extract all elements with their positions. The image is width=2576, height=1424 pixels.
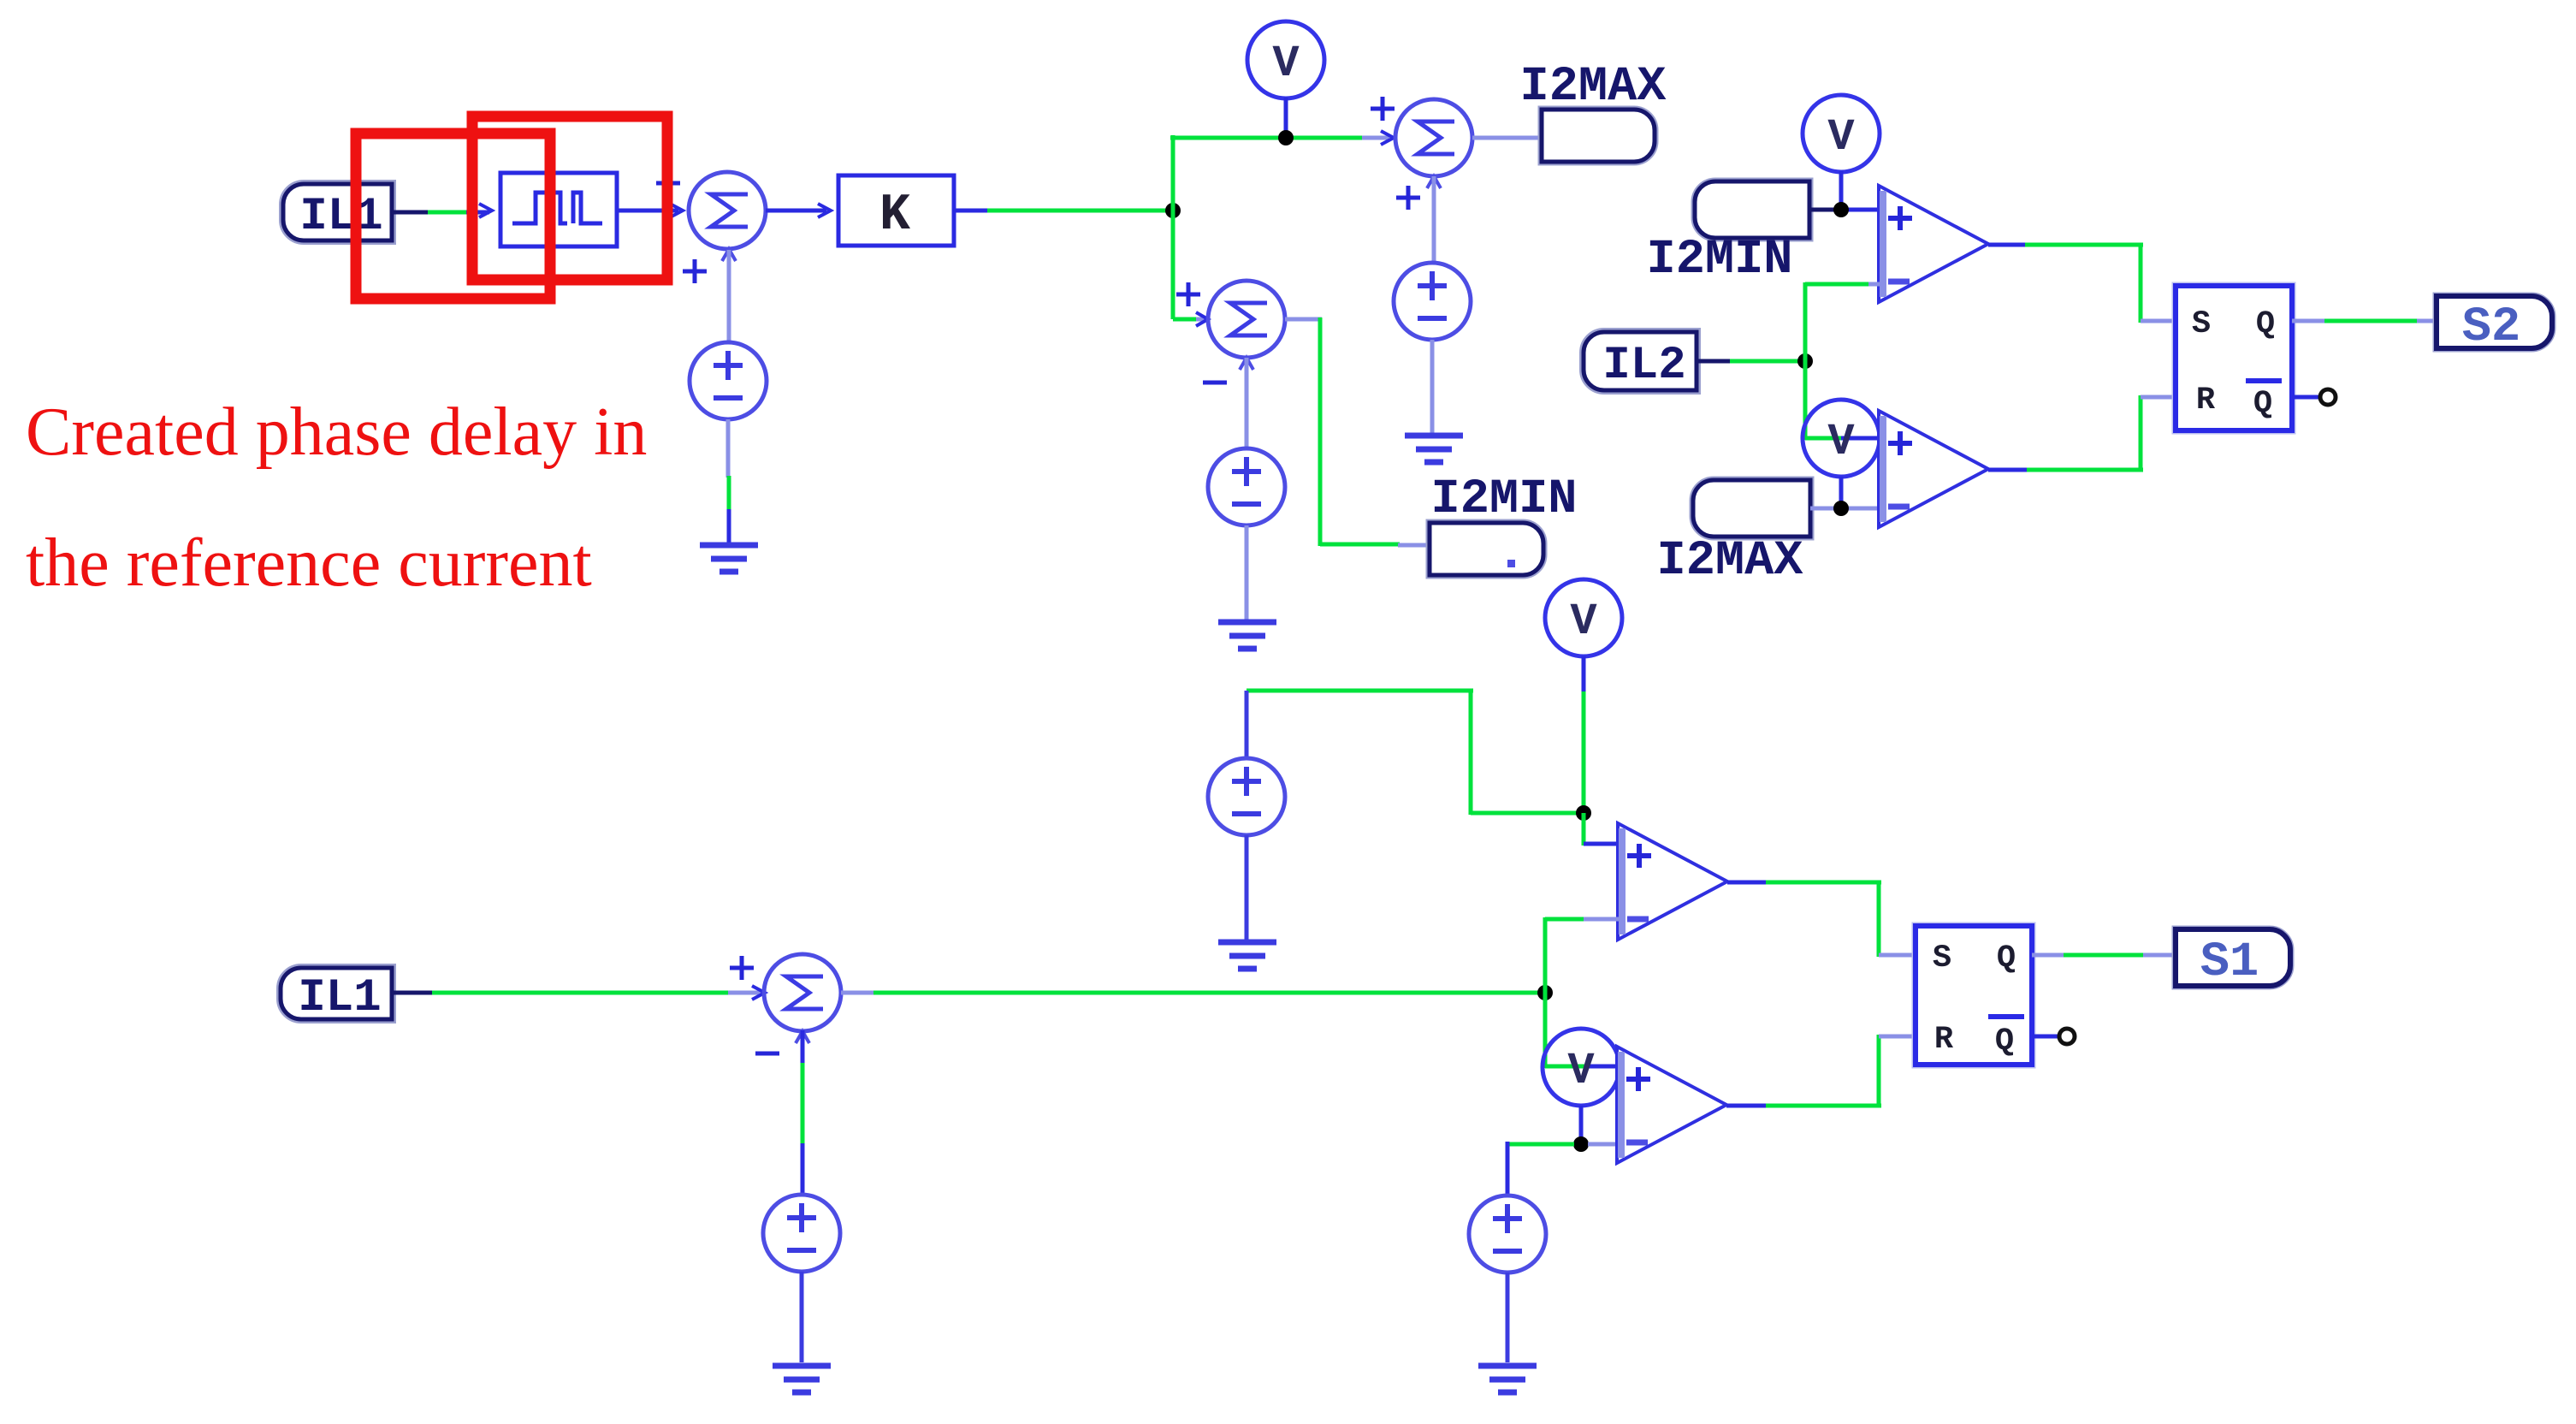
wire FF2 Qbar stub — [2032, 1035, 2058, 1039]
text I2MAX (middle right) — [1656, 534, 1803, 589]
summer S2a (top right adder) — [1371, 97, 1472, 210]
wire VDC6 to ground — [800, 1272, 804, 1362]
svg-text:I2MAX: I2MAX — [1519, 60, 1667, 115]
wire I2MIN label to comparator CMP1 plus input — [1809, 208, 1880, 212]
text I2MAX (top) — [1519, 60, 1667, 115]
wire V2 down to junction — [1582, 656, 1586, 815]
wire junction to comparator CMP3 plus input — [1584, 813, 1620, 845]
wire summer S4a bottom input from VDC6 — [801, 1030, 805, 1196]
node IL1 (input label, bottom) — [281, 968, 392, 1024]
voltage source VDC4 (middle left) — [1208, 758, 1285, 835]
svg-text:Q: Q — [1997, 940, 2016, 976]
delay (monostable) block U1 — [500, 173, 617, 246]
svg-text:I2MIN: I2MIN — [1646, 233, 1792, 288]
svg-text:S1: S1 — [2200, 935, 2259, 990]
wire FF1 Qbar stub — [2292, 395, 2318, 400]
wire comparator CMP4 output to flip-flop FF2 R input — [1726, 1035, 1917, 1106]
wire IL1 to delay block — [392, 204, 492, 217]
node IL2 (input label) — [1584, 332, 1697, 392]
voltage source VDC6 (bottom left) — [763, 1195, 840, 1272]
wire FF2 Q output to S1 — [2032, 953, 2177, 958]
wire summer S1a to gain K — [766, 204, 831, 217]
comparator CMP4 (lower R comparator) — [1617, 1047, 1726, 1163]
ground G3 — [1218, 622, 1276, 649]
wire comparator CMP2 output to flip-flop FF1 R input — [1988, 395, 2177, 472]
label tag I2MIN (blank, bottom middle) — [1430, 523, 1543, 575]
svg-text:IL1: IL1 — [299, 191, 382, 243]
wire summer S1a bottom input from source VDC1 — [727, 250, 731, 343]
terminator circle FF2 Qbar — [2059, 1029, 2075, 1044]
wire node A down to summer S3a — [1173, 208, 1208, 326]
svg-text:Q: Q — [1995, 1023, 2014, 1059]
voltmeter V2 (middle) — [1545, 579, 1622, 656]
annotation red box around delay block — [472, 116, 667, 280]
junction on IL2 net — [1797, 353, 1813, 369]
ground G6 — [773, 1366, 831, 1392]
wire summer S3a bottom input from VDC3 — [1245, 358, 1249, 450]
voltmeter V4 (top right) — [1803, 95, 1880, 172]
junction J1 on long wire — [1537, 985, 1553, 1000]
svg-text:R: R — [1934, 1022, 1954, 1058]
summer S1a (top left sigma adder) — [656, 171, 766, 283]
junction on wire at V1 — [1278, 130, 1294, 145]
svg-text:S: S — [2192, 306, 2211, 342]
annotation red box around IL1 label — [356, 133, 550, 299]
voltmeter V5 (on CMP2 plus input) — [1803, 400, 1880, 477]
svg-text:S2: S2 — [2462, 300, 2520, 355]
ground G1 — [700, 545, 758, 572]
comparator CMP1 (upper S comparator) — [1879, 186, 1988, 302]
wire V4 stem — [1839, 171, 1844, 204]
junction at V2 / comparator CMP3 plus input — [1576, 805, 1591, 821]
svg-text:I2MAX: I2MAX — [1656, 534, 1803, 589]
wire summer S3a output to label I2MIN (bottom) — [1285, 317, 1431, 546]
node S2 (output label) — [2437, 296, 2552, 355]
flip-flop FF1 (S R latch, top) — [2176, 286, 2292, 430]
summer S4a (bottom adder) — [730, 954, 841, 1053]
voltmeter V1 — [1247, 21, 1324, 98]
wire V3 down to junction J2 — [1579, 1106, 1584, 1138]
wire VDC5 to ground — [1506, 1273, 1510, 1362]
svg-text:Created phase delay in: Created phase delay in — [26, 395, 647, 470]
wire summer S4a output long run to junction J1 — [841, 991, 1545, 995]
summer S3a (middle adder) — [1176, 281, 1285, 383]
svg-text:Q: Q — [2256, 306, 2275, 342]
wire J1 down to comparator CMP4 plus input — [1545, 993, 1619, 1068]
wire J1 up to comparator CMP3 minus input — [1545, 917, 1620, 993]
comparator CMP3 (lower S comparator) — [1618, 823, 1727, 940]
wire delay block to summer S1a — [617, 204, 683, 217]
svg-text:K: K — [879, 187, 910, 245]
wire gain K to node A — [954, 209, 1173, 213]
svg-text:S: S — [1933, 940, 1951, 976]
annotation text: Created phase delay in the reference current — [26, 395, 647, 601]
wire VDC4 top to bend and across — [1247, 691, 1583, 815]
gain block K — [838, 175, 954, 246]
wire summer S2a bottom input from VDC2 — [1432, 176, 1436, 262]
voltage source VDC5 (bottom middle) — [1469, 1196, 1546, 1273]
wire IL2 junction down to comparator CMP2 plus input — [1805, 361, 1880, 440]
wire VDC1 to ground — [728, 419, 729, 543]
voltage source VDC3 — [1208, 448, 1285, 525]
node IL1 (input label, top) — [283, 184, 392, 243]
label tag I2MAX (blank, top) — [1542, 110, 1655, 162]
svg-text:IL2: IL2 — [1602, 340, 1685, 392]
ground G4 — [1218, 942, 1276, 969]
wire I2MAX label to comparator CMP2 minus input — [1810, 507, 1880, 511]
voltage source VDC2 — [1394, 263, 1471, 340]
ground G2 — [1405, 436, 1463, 462]
junction node A — [1165, 203, 1181, 218]
junction on CMP2 minus input — [1833, 501, 1849, 516]
wire J2 left and down to VDC5 — [1507, 1142, 1574, 1197]
wire IL2 junction up to comparator CMP1 minus input — [1805, 282, 1880, 363]
wire J2 to comparator CMP4 minus input — [1588, 1142, 1619, 1147]
text I2MIN (top right) — [1646, 233, 1792, 288]
svg-text:I2MIN: I2MIN — [1430, 472, 1577, 527]
wire VDC3 to ground — [1245, 525, 1249, 620]
ground G5 — [1478, 1366, 1537, 1392]
wire summer S2a to label I2MAX — [1472, 136, 1543, 140]
wire VDC4 to ground — [1245, 835, 1249, 940]
svg-text:R: R — [2196, 383, 2216, 418]
voltage source VDC1 — [690, 342, 767, 419]
flip-flop FF2 (S R latch, bottom) — [1916, 926, 2032, 1065]
wire V5 down to junction — [1839, 477, 1844, 503]
wire IL1 to summer S4a — [392, 986, 765, 1000]
terminator circle FF1 Qbar — [2320, 389, 2336, 405]
wire comparator CMP1 output to flip-flop FF1 S input — [1988, 245, 2177, 323]
text I2MIN (bottom middle) — [1430, 472, 1577, 527]
label tag I2MIN (blank, top right) — [1695, 181, 1809, 238]
label tag I2MAX (blank, middle right) — [1693, 480, 1810, 537]
junction J2 — [1573, 1136, 1589, 1152]
svg-text:IL1: IL1 — [298, 972, 381, 1024]
wire comparator CMP3 output to flip-flop FF2 S input — [1727, 882, 1917, 957]
junction on CMP1 plus input — [1833, 202, 1849, 217]
wire node A up and right to summer S2a — [1170, 131, 1394, 213]
svg-text:the reference current: the reference current — [26, 525, 592, 601]
wire IL2 to junction — [1697, 359, 1800, 364]
node S1 (output label) — [2176, 929, 2290, 990]
wire FF1 Q output to S2 — [2292, 319, 2438, 323]
wire VDC2 to ground — [1430, 340, 1435, 433]
svg-text:Q: Q — [2253, 386, 2272, 422]
wire V1 stem — [1284, 98, 1288, 131]
comparator CMP2 (upper R comparator) — [1879, 411, 1988, 527]
voltmeter V3 (on CMP4 plus input) — [1543, 1029, 1620, 1106]
